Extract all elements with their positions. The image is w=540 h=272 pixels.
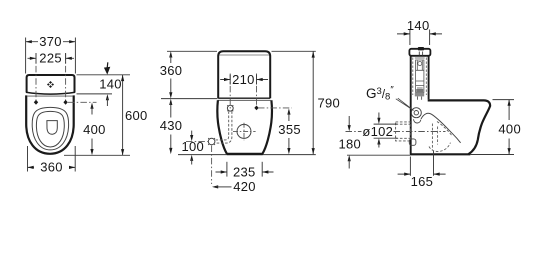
dim 600: [122, 75, 124, 155]
svg-text:225: 225: [39, 51, 62, 66]
trap (dashed): [429, 122, 452, 152]
back wall: [410, 99, 412, 155]
svg-text:140: 140: [99, 76, 122, 91]
dim 140 (side): [397, 30, 442, 46]
svg-text:ø102: ø102: [362, 124, 393, 139]
hinge centerlines (dash-dot): [35, 54, 37, 103]
top extension lines: [167, 50, 316, 52]
dash-dot to 355: [258, 107, 292, 109]
dim 370: [26, 38, 76, 74]
dim o102: [374, 124, 398, 138]
dim 180: [348, 116, 350, 127]
bowl opening: [36, 111, 64, 147]
rear bump at floor: [409, 139, 416, 145]
dim 420: [212, 185, 218, 188]
rim extension right: [493, 99, 515, 101]
svg-text:790: 790: [318, 95, 341, 110]
cistern internals (dashed mechanism): [413, 58, 427, 100]
svg-text:360: 360: [40, 160, 63, 175]
body (front): [217, 100, 272, 154]
svg-text:430: 430: [160, 118, 183, 133]
cistern (plan): [27, 75, 75, 92]
dim 790: [312, 51, 314, 154]
dim 360 (left view bottom): [28, 146, 76, 172]
lid joint line: [219, 54, 269, 56]
svg-text:370: 370: [39, 34, 62, 49]
hinge line extension to right: [68, 101, 97, 103]
dim 235: [216, 162, 274, 177]
svg-text:355: 355: [278, 122, 301, 137]
body top edge: [27, 95, 72, 97]
valve vertical centerline: [211, 146, 213, 185]
supply axis (dash-dot, to the left): [186, 140, 208, 142]
bowl rim + front profile: [428, 100, 490, 154]
svg-text:180: 180: [339, 137, 362, 152]
body outline (plan): [26, 95, 73, 153]
svg-text:140: 140: [407, 18, 430, 33]
drain circle: [237, 124, 251, 138]
bowl inner curve: [421, 113, 461, 143]
dim 355: [287, 108, 290, 114]
fixing hole centerlines (dash-dot): [230, 74, 256, 112]
trap hole (D shape): [47, 121, 57, 135]
svg-text:210: 210: [232, 72, 255, 87]
dim 225: [28, 53, 75, 64]
hinge hole dots: [34, 100, 38, 105]
floor extensions: [178, 154, 316, 156]
dim 165: [398, 151, 446, 176]
cistern bottom joint: [218, 97, 270, 99]
dim 400 (side): [508, 100, 510, 155]
flush button (plan): [47, 81, 54, 88]
supply inlet fitting (circle with ticks): [227, 105, 233, 111]
dim 100: [191, 131, 193, 137]
svg-text:165: 165: [411, 174, 434, 189]
outlet pipe (dashed): [396, 122, 411, 141]
svg-text:420: 420: [233, 179, 256, 194]
top extension line (cistern top, to the right): [77, 74, 131, 76]
dim 400 (left view): [90, 103, 93, 109]
svg-text:400: 400: [83, 122, 106, 137]
svg-text:100: 100: [182, 139, 205, 154]
lid button: [418, 47, 424, 50]
cistern walls (side): [410, 56, 412, 99]
floor extension line (left view bottom): [64, 154, 130, 156]
cistern bottom extension: [77, 93, 113, 95]
cistern lid (side): [409, 49, 430, 56]
outlet axis (dash-dot): [346, 131, 446, 133]
dim 210: [220, 75, 268, 85]
right fixing hole dot: [254, 106, 258, 111]
seat ring outer: [32, 107, 68, 149]
base line: [227, 153, 263, 155]
supply position marker (solid arrow): [106, 62, 109, 68]
seat level extension: [161, 98, 218, 100]
svg-text:360: 360: [160, 63, 183, 78]
supply pipe (dashed): [215, 111, 229, 140]
cistern bottom curved edge: [26, 92, 75, 94]
svg-text:400: 400: [498, 122, 521, 137]
G3/8 fitting: [411, 108, 421, 118]
leader lines: [396, 98, 414, 110]
supply valve (circle with ticks): [208, 138, 215, 145]
floor (side): [410, 153, 470, 155]
cistern (front): [218, 51, 270, 98]
svg-text:600: 600: [125, 108, 148, 123]
dim 360 / 430 column: [169, 51, 172, 57]
svg-text:235: 235: [233, 164, 256, 179]
